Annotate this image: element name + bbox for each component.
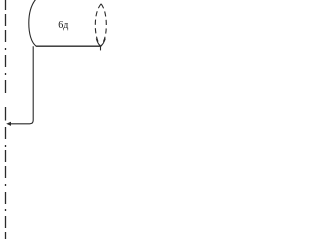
cylinder bottom edge: [36, 45, 101, 47]
leader line from cylinder down to axis: [10, 46, 33, 124]
tail below lens bottom vertex: [100, 46, 102, 50]
axis centerline (dash-dot, vertical at x=5.5): [5, 0, 7, 239]
svg-text:6д: 6д: [58, 20, 68, 31]
cylinder left end arc: [29, 0, 37, 46]
arrowhead pointing left at axis: [6, 122, 11, 126]
lens bottom tip solid (left side): [96, 39, 100, 47]
cylinder far end (dashed lens / ellipse): [95, 4, 101, 47]
lens bottom tip solid (right side): [101, 39, 106, 47]
